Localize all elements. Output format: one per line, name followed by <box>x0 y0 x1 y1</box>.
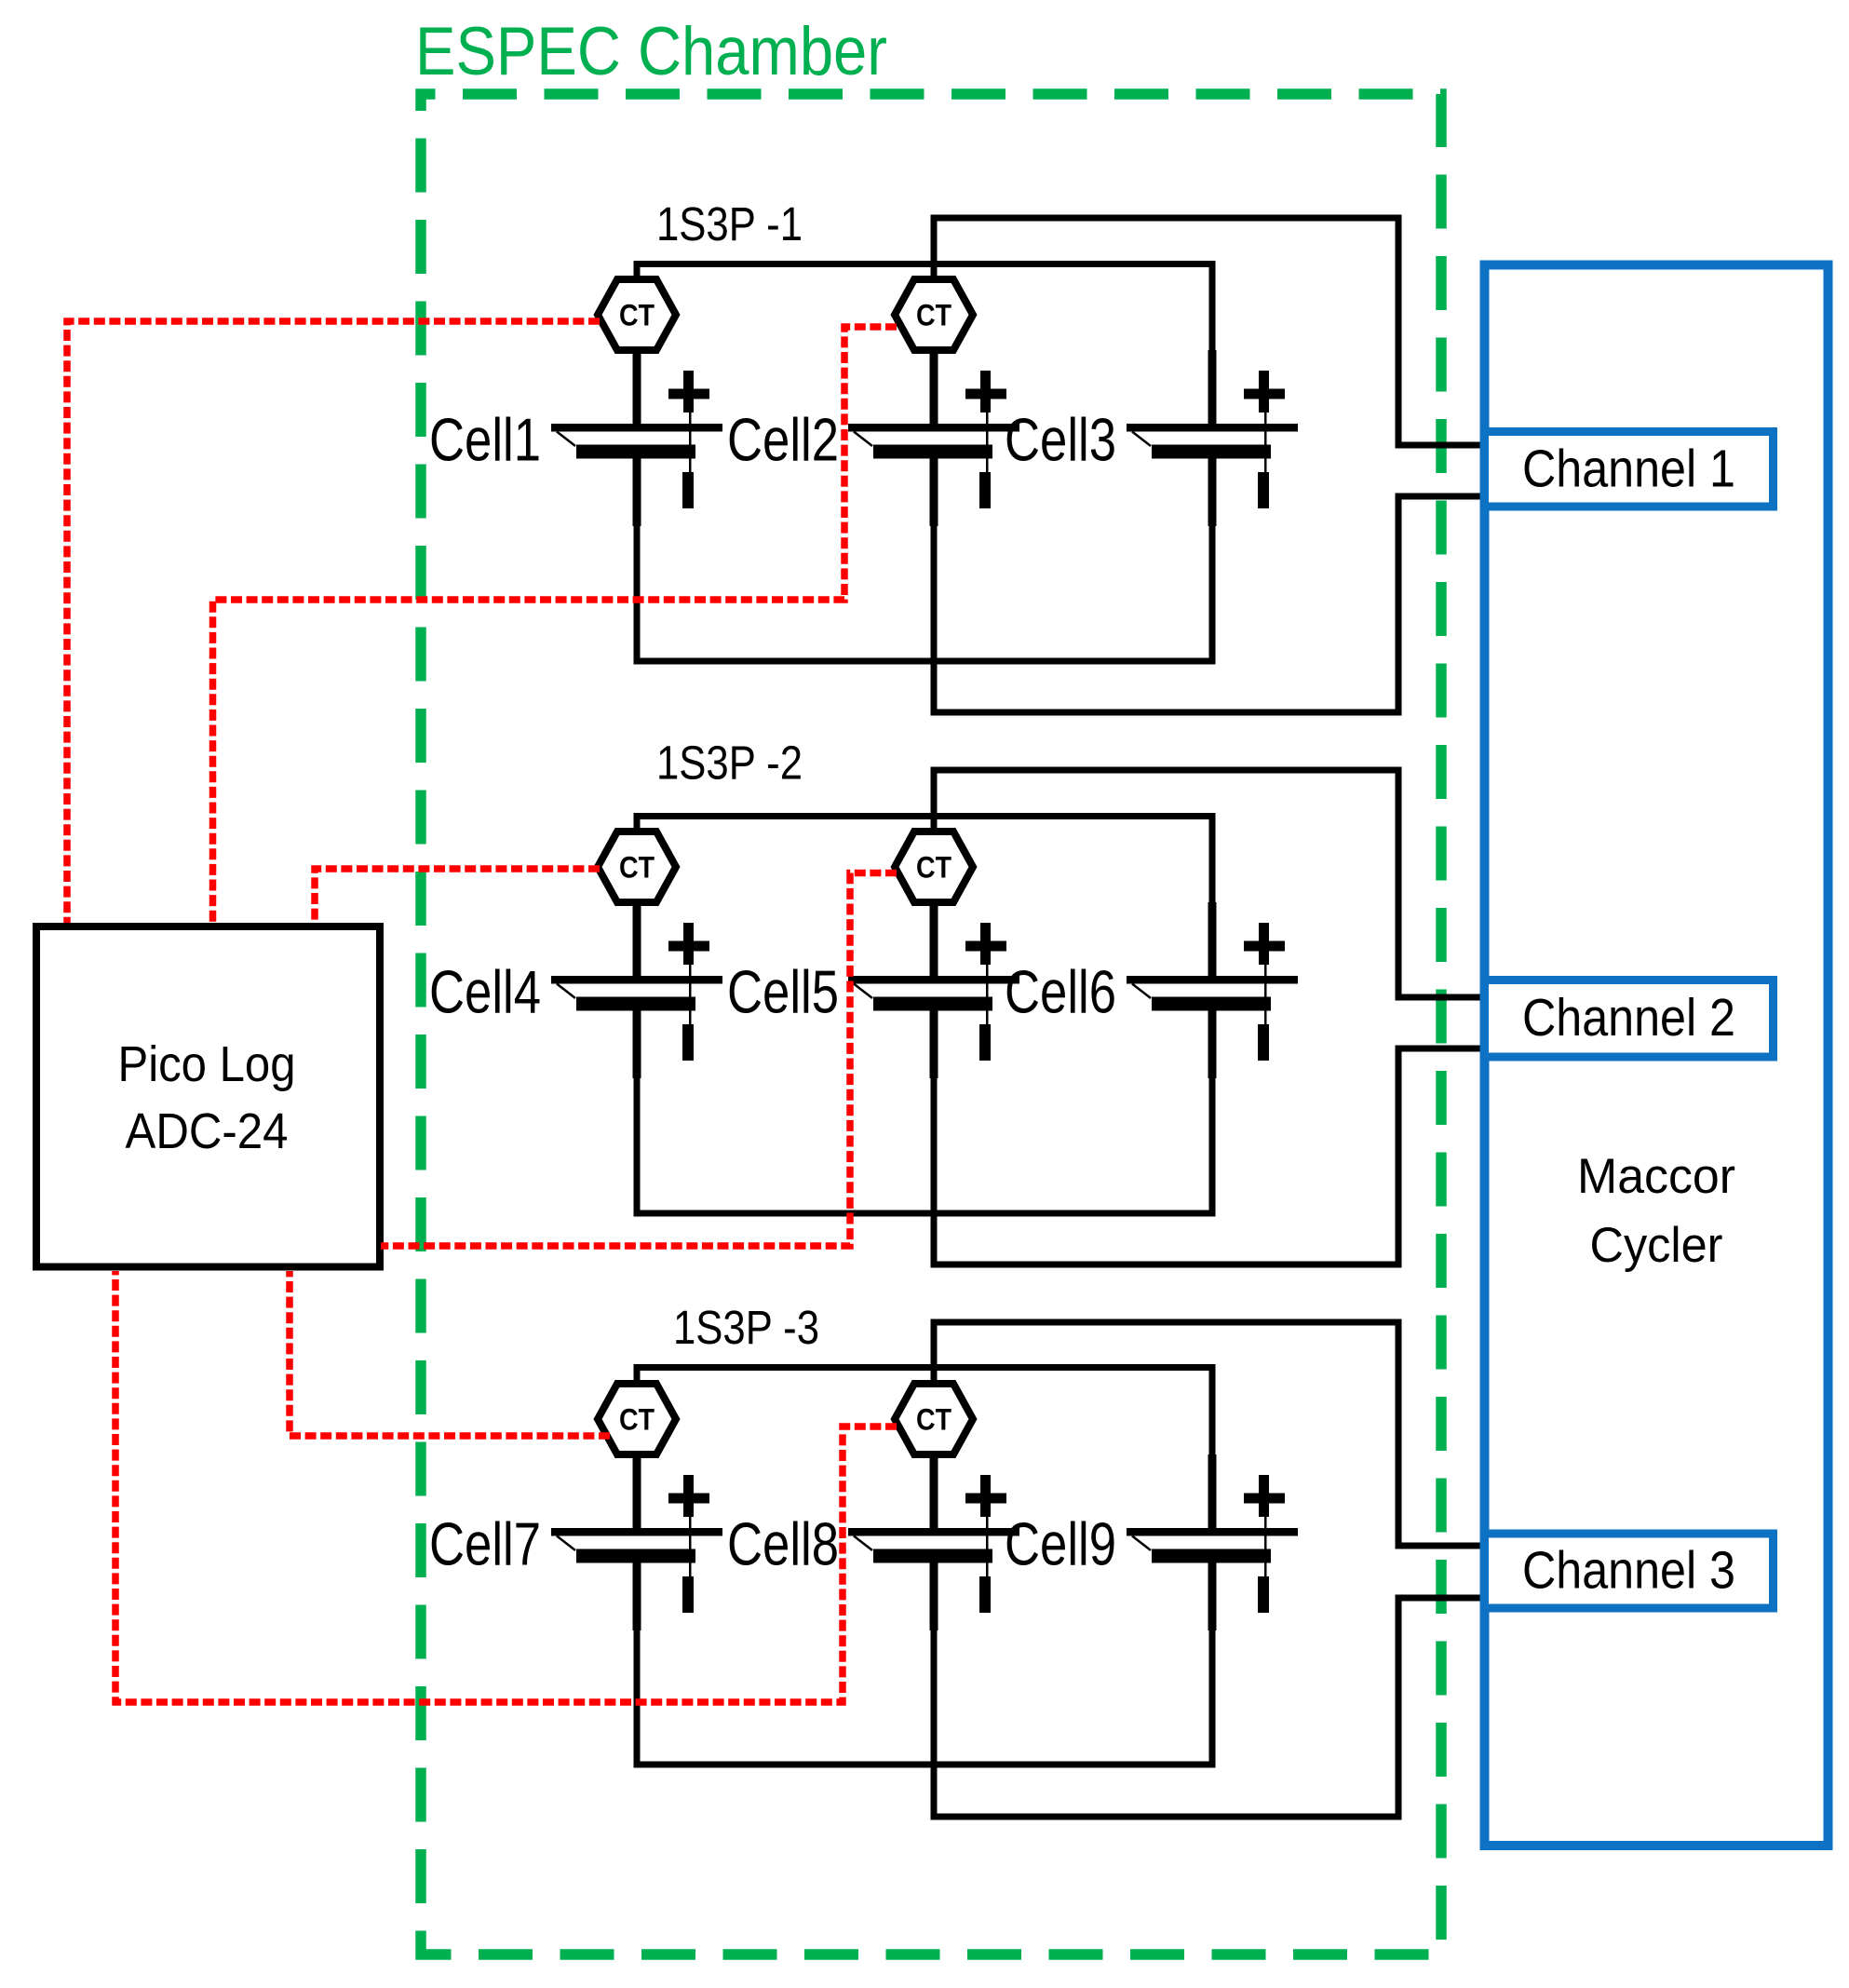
svg-text:Pico Log: Pico Log <box>118 1037 296 1092</box>
svg-text:Cell8: Cell8 <box>727 1510 839 1578</box>
svg-text:Maccor: Maccor <box>1577 1149 1735 1204</box>
wire group1 positive bus Cell1-Cell3 <box>637 264 1212 353</box>
wire group3 negative bus Cell7-Cell9 <box>637 1626 1212 1765</box>
Channel 1 box <box>1485 432 1774 507</box>
wire group3 negative bus Cell8 to Channel 3 <box>934 1598 1489 1817</box>
red sense wire CT5 to PicoLog <box>381 873 897 1247</box>
svg-text:Channel 3: Channel 3 <box>1522 1541 1735 1601</box>
Pico Log ADC-24 box <box>36 926 380 1267</box>
CT sensor Cell4 <box>598 832 676 902</box>
svg-text:Cell9: Cell9 <box>1005 1510 1116 1578</box>
wire group3 positive bus Cell8 to Channel 3 <box>934 1322 1489 1546</box>
svg-text:Cell4: Cell4 <box>429 958 541 1026</box>
CT sensor Cell2 <box>895 279 973 350</box>
svg-text:Cycler: Cycler <box>1590 1218 1723 1273</box>
svg-text:1S3P -1: 1S3P -1 <box>656 197 803 250</box>
battery Cell5 <box>848 902 1019 1078</box>
wire group1 negative bus Cell1-Cell3 <box>637 521 1212 661</box>
ESPEC Chamber dashed boundary <box>421 94 1441 1954</box>
battery Cell6 <box>1127 902 1298 1078</box>
Maccor Cycler box <box>1485 265 1829 1846</box>
wire group1 positive bus Cell2 to Channel 1 <box>934 218 1489 445</box>
red sense wire CT7 to PicoLog <box>290 1271 610 1436</box>
CT sensor Cell1 <box>598 279 676 350</box>
CT sensor Cell5 <box>895 832 973 902</box>
battery Cell8 <box>848 1454 1019 1630</box>
svg-text:1S3P -3: 1S3P -3 <box>673 1301 819 1354</box>
wire group1 negative bus Cell2 to Channel 1 <box>934 496 1489 712</box>
red sense wire CT8 to PicoLog <box>115 1271 897 1702</box>
CT sensor Cell7 <box>598 1384 676 1454</box>
svg-text:Cell5: Cell5 <box>727 958 839 1026</box>
svg-text:1S3P -2: 1S3P -2 <box>656 737 803 790</box>
svg-text:ESPEC Chamber: ESPEC Chamber <box>415 14 887 89</box>
battery Cell2 <box>848 350 1019 526</box>
wire group2 positive bus Cell5 to Channel 2 <box>934 770 1489 997</box>
battery Cell9 <box>1127 1454 1298 1630</box>
Channel 3 box <box>1485 1534 1774 1608</box>
svg-text:Cell1: Cell1 <box>429 406 541 474</box>
wire group2 negative bus Cell4-Cell6 <box>637 1074 1212 1213</box>
wire group2 positive bus Cell4-Cell6 <box>637 817 1212 905</box>
CT sensor Cell8 <box>895 1384 973 1454</box>
svg-text:Channel 1: Channel 1 <box>1522 440 1735 499</box>
svg-text:Channel 2: Channel 2 <box>1522 988 1735 1048</box>
red sense wire CT1 to PicoLog <box>67 321 600 923</box>
svg-text:Cell3: Cell3 <box>1005 406 1116 474</box>
red sense wire CT4 to PicoLog <box>315 869 600 923</box>
svg-text:Cell6: Cell6 <box>1005 958 1116 1026</box>
battery Cell1 <box>551 350 722 526</box>
wire group2 negative bus Cell5 to Channel 2 <box>934 1048 1489 1264</box>
svg-text:Cell7: Cell7 <box>429 1510 541 1578</box>
red sense wire CT2 to PicoLog <box>213 327 898 923</box>
battery Cell7 <box>551 1454 722 1630</box>
battery Cell3 <box>1127 350 1298 526</box>
battery Cell4 <box>551 902 722 1078</box>
svg-text:ADC-24: ADC-24 <box>126 1104 289 1159</box>
wire group3 positive bus Cell7-Cell9 <box>637 1368 1212 1457</box>
Channel 2 box <box>1485 980 1774 1058</box>
svg-text:Cell2: Cell2 <box>727 406 839 474</box>
